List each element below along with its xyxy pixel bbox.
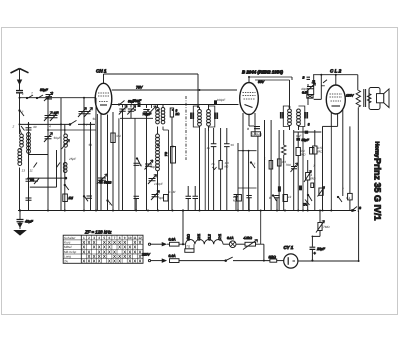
top bus y=97.7: [20, 97, 97, 99]
column x=64.8: [61, 98, 70, 211]
column x=90.5 and 96: [90, 122, 92, 211]
wires under IF2: [199, 131, 201, 211]
svg-text:X: X: [133, 259, 136, 264]
svg-text:MΩ: MΩ: [311, 177, 317, 181]
svg-text:CY1: CY1: [218, 234, 222, 241]
svg-text:100pF: 100pF: [217, 98, 227, 102]
svg-text:50µµF: 50µµF: [133, 99, 142, 103]
CH1 pin drops: [100, 114, 102, 211]
0.1uF box: [348, 193, 353, 200]
svg-text:MΩ: MΩ: [318, 150, 324, 154]
svg-text:Mittel: Mittel: [64, 245, 72, 249]
svg-text:X: X: [108, 259, 111, 264]
svg-text:185V: 185V: [346, 94, 354, 98]
svg-text:0.1A: 0.1A: [227, 236, 234, 240]
rotated title: [0, 0, 1, 1]
svg-text:Lang: Lang: [64, 255, 71, 259]
svg-text:B: B: [247, 127, 249, 131]
svg-text:X: X: [88, 259, 91, 264]
svg-text:70pF: 70pF: [157, 196, 165, 200]
bus end diode/switch: [352, 207, 357, 211]
svg-text:7: 7: [109, 202, 111, 206]
svg-text:0.1: 0.1: [346, 196, 351, 200]
output transformer: [356, 75, 371, 212]
svg-text:50: 50: [231, 143, 235, 147]
svg-text:X: X: [88, 240, 91, 245]
svg-text:kΩ: kΩ: [176, 112, 181, 116]
column x=48 variable caps: [44, 98, 59, 211]
svg-text:11kΩ: 11kΩ: [269, 255, 277, 259]
svg-text:3: 3: [308, 123, 310, 127]
svg-text:4: 4: [49, 125, 51, 129]
svg-text:X: X: [113, 259, 116, 264]
svg-text:30: 30: [33, 125, 37, 129]
svg-text:B: B: [269, 196, 271, 200]
svg-text:7: 7: [86, 123, 88, 127]
svg-text:50pF: 50pF: [40, 88, 49, 92]
column x=28.5: [26, 122, 35, 211]
svg-text:40µF: 40µF: [25, 220, 34, 224]
antenna: [11, 69, 29, 98]
svg-text:50: 50: [89, 143, 93, 147]
tube B2044: [240, 70, 292, 115]
rectifier CY1: [284, 211, 359, 269]
B+ horizontal y=132 with filter cap blob: [294, 131, 321, 133]
mid switches and variable caps: [136, 158, 168, 201]
svg-text:CY 1: CY 1: [284, 245, 294, 250]
switch S1b on top bus: [37, 95, 43, 99]
svg-text:X: X: [123, 254, 126, 259]
svg-text:X: X: [108, 249, 111, 254]
svg-text:40pF: 40pF: [301, 87, 309, 91]
svg-text:0.1: 0.1: [117, 134, 122, 138]
svg-text:7MΩ: 7MΩ: [323, 225, 330, 229]
cluster under CH1 on line y=104.5: [118, 101, 173, 119]
0.1 box on x=113: [111, 133, 115, 143]
vertical bus->fuse: [182, 211, 184, 245]
lamp: [229, 241, 236, 248]
svg-text:ZF = 128 kHz: ZF = 128 kHz: [84, 230, 112, 235]
svg-text:CL2: CL2: [208, 234, 212, 240]
power line 2: [148, 254, 283, 263]
svg-text:50pF: 50pF: [54, 136, 62, 140]
svg-text:MΩ: MΩ: [301, 153, 307, 157]
svg-text:B 2044 (REN2 1954): B 2044 (REN2 1954): [242, 70, 284, 75]
svg-text:Schalter: Schalter: [64, 236, 76, 240]
ground bus: [18, 210, 356, 212]
svg-text:X: X: [103, 254, 106, 259]
svg-text:40Ω: 40Ω: [187, 234, 191, 241]
4.2k variable resistor: [245, 242, 256, 246]
link coils bottom: [29, 154, 49, 156]
under B2044 cluster: [237, 120, 317, 211]
tuning gang dash line: [185, 96, 187, 160]
svg-text:13: 13: [22, 169, 26, 173]
svg-text:1: 1: [22, 92, 24, 96]
switch nearby: [338, 197, 342, 203]
svg-text:CH1: CH1: [197, 234, 201, 241]
svg-text:0.6A: 0.6A: [169, 238, 177, 242]
svg-text:X: X: [98, 259, 101, 264]
svg-text:50: 50: [93, 117, 97, 121]
switches: [251, 162, 255, 168]
svg-text:X: X: [139, 240, 142, 245]
trimmer C1: [44, 92, 53, 101]
svg-text:Kurz: Kurz: [64, 241, 71, 245]
svg-text:X: X: [139, 259, 142, 264]
B2044 pin drops: [242, 113, 244, 211]
CL2 pin drops + cathode network: [331, 113, 337, 127]
100pF cap blob on y=104.5: [138, 102, 141, 107]
svg-text:Mit.m.Sp: Mit.m.Sp: [64, 250, 76, 254]
svg-text:0.1M: 0.1M: [169, 190, 176, 194]
svg-text:X: X: [118, 245, 121, 250]
50pF cap: [296, 138, 300, 141]
svg-text:X: X: [133, 249, 136, 254]
svg-text:X: X: [93, 259, 96, 264]
ground symbol + 40uF: [15, 211, 34, 236]
table ZF: [63, 230, 143, 264]
svg-text:25pF: 25pF: [68, 157, 77, 161]
IF transformer 2: [191, 100, 217, 131]
svg-text:1k: 1k: [288, 195, 292, 199]
svg-text:7A: 7A: [211, 162, 215, 166]
power line 1: [148, 236, 264, 261]
svg-text:90V: 90V: [258, 80, 265, 84]
svg-text:Prinz 35 G IV/1: Prinz 35 G IV/1: [373, 158, 383, 221]
svg-text:70µµF: 70µµF: [143, 112, 152, 116]
svg-text:X: X: [128, 259, 131, 264]
extra boxes row1: [269, 161, 273, 170]
second bus y=122: [20, 123, 96, 125]
left mid cross wire y=130: [48, 129, 96, 131]
vertical x=260.7: [260, 211, 262, 245]
svg-text:TA: TA: [64, 259, 68, 263]
svg-text:15: 15: [54, 111, 58, 115]
bus caps / boxes: [237, 195, 242, 202]
svg-text:10: 10: [128, 236, 132, 240]
svg-text:1µ: 1µ: [207, 146, 211, 150]
svg-text:X: X: [93, 245, 96, 250]
svg-text:TA: TA: [303, 203, 307, 207]
svg-text:700: 700: [286, 163, 291, 167]
heater chain bumps: [186, 239, 224, 244]
svg-text:X: X: [118, 259, 121, 264]
switch S1a on top bus: [27, 95, 33, 99]
scattered tiny labels: [12, 81, 351, 249]
svg-text:X: X: [113, 240, 116, 245]
zigzag resistor: [281, 143, 286, 157]
svg-text:S: S: [359, 206, 361, 210]
speaker: [369, 88, 389, 110]
caps on bus mid: [134, 196, 140, 198]
tube CL2: [313, 69, 358, 115]
svg-text:kΩ: kΩ: [233, 199, 238, 203]
pot on riser x=320: [310, 211, 326, 261]
column x=84: [78, 98, 93, 211]
svg-text:50pF: 50pF: [150, 165, 158, 169]
svg-text:7: 7: [254, 162, 256, 166]
svg-text:2: 2: [12, 125, 15, 129]
resistor box x=311.8 upper: [310, 148, 314, 155]
svg-text:78V: 78V: [136, 86, 143, 90]
svg-text:1M: 1M: [69, 196, 74, 200]
volume pot lower left: [97, 174, 112, 206]
svg-text:220V: 220V: [141, 253, 151, 257]
variable pot: [293, 130, 295, 211]
svg-text:11: 11: [30, 169, 33, 173]
svg-text:7: 7: [31, 92, 33, 96]
svg-text:50: 50: [311, 81, 315, 85]
svg-text:50/13: 50/13: [104, 181, 112, 185]
svg-text:0.05: 0.05: [302, 91, 308, 95]
svg-text:20µF: 20µF: [316, 247, 326, 251]
svg-text:7: 7: [22, 110, 24, 114]
svg-text:100pF: 100pF: [154, 182, 164, 186]
svg-text:0.05MΩ: 0.05MΩ: [251, 132, 263, 136]
svg-text:CH 1: CH 1: [96, 69, 107, 74]
svg-text:X: X: [82, 259, 85, 264]
svg-text:7: 7: [313, 164, 315, 168]
coil L1: [20, 128, 22, 150]
left column x=19.5 antenna coil branch: [18, 98, 25, 211]
1M diag box: [306, 173, 310, 181]
svg-text:4: 4: [98, 236, 100, 240]
svg-text:7: 7: [342, 187, 344, 191]
CL2 grid cluster: [306, 75, 328, 105]
svg-text:7Ω: 7Ω: [186, 245, 191, 249]
svg-text:C L 2: C L 2: [330, 69, 342, 74]
svg-text:0.1: 0.1: [164, 152, 168, 157]
svg-text:4.2kΩ: 4.2kΩ: [244, 236, 253, 240]
switch: [20, 110, 25, 116]
svg-text:B: B: [303, 76, 305, 80]
tube CH1: [95, 69, 238, 115]
IF transformer 3: [281, 106, 307, 130]
svg-text:0.6A: 0.6A: [169, 254, 177, 258]
oscillator coil assembly: [156, 105, 176, 211]
svg-text:X: X: [82, 249, 85, 254]
svg-text:Horny: Horny: [374, 142, 380, 159]
